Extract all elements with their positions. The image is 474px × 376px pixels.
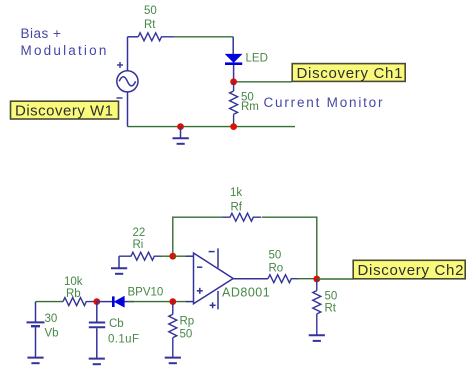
resistor Ro xyxy=(268,275,299,283)
label 50 Ro xyxy=(269,250,284,275)
wire diode to non-inverting junction xyxy=(128,301,187,303)
op-amp plus input symbol xyxy=(197,288,203,294)
svg-text:50: 50 xyxy=(144,5,157,17)
svg-text:30: 30 xyxy=(45,313,58,325)
junction inverting input xyxy=(169,253,176,260)
junction output node xyxy=(313,276,320,283)
wire top from Rt to LED corner xyxy=(174,36,233,38)
label 50 Rt xyxy=(144,5,157,31)
resistor Rt (bottom) xyxy=(313,279,321,335)
resistor Rm xyxy=(230,82,238,127)
junction at LED cathode xyxy=(230,78,237,85)
svg-text:Discovery Ch1: Discovery Ch1 xyxy=(297,65,404,82)
wire junction to op-amp minus xyxy=(173,255,187,257)
wire from LED junction to Discovery Ch1 xyxy=(234,81,292,83)
op-amp U1 AD8001 xyxy=(194,253,234,304)
annotation Bias + Modulation xyxy=(21,26,109,58)
svg-text:Ri: Ri xyxy=(133,239,144,251)
svg-text:Modulation: Modulation xyxy=(21,43,109,58)
plus sign of source xyxy=(117,62,123,68)
svg-text:1k: 1k xyxy=(230,187,242,199)
svg-text:10k: 10k xyxy=(64,276,83,288)
ground at Cb xyxy=(89,359,105,365)
ground (top circuit) xyxy=(173,127,189,144)
svg-text:LED: LED xyxy=(246,53,268,65)
junction ground top rail xyxy=(177,123,184,130)
AC source V1 leads xyxy=(128,37,139,127)
svg-text:Vb: Vb xyxy=(45,328,59,340)
ground at Rt xyxy=(309,335,325,341)
wire junction to Discovery Ch2 xyxy=(317,278,353,280)
svg-text:Current Monitor: Current Monitor xyxy=(264,95,385,110)
svg-text:0.1uF: 0.1uF xyxy=(108,334,139,346)
svg-text:50: 50 xyxy=(269,250,282,262)
wire Ro to output junction xyxy=(297,278,317,280)
ground at Vb xyxy=(27,358,43,364)
junction Rb/Cb/diode xyxy=(93,298,100,305)
op-amp positive supply pin (top) xyxy=(209,248,218,267)
capacitor Cb xyxy=(89,302,105,358)
svg-text:Bias +: Bias + xyxy=(21,26,62,41)
svg-text:Rf: Rf xyxy=(231,202,243,214)
svg-text:Rt: Rt xyxy=(144,19,156,31)
ground at Rp xyxy=(165,358,181,364)
svg-text:50: 50 xyxy=(180,329,193,341)
Discovery W1 tag xyxy=(11,101,119,119)
label 50 Rm xyxy=(241,92,259,114)
svg-text:Rb: Rb xyxy=(66,288,81,300)
op-amp negative supply pin (bottom) xyxy=(210,291,218,310)
resistor Ri xyxy=(119,252,162,260)
Discovery Ch1 tag xyxy=(292,64,405,82)
label 22 Ri xyxy=(133,227,146,251)
svg-text:Ro: Ro xyxy=(269,263,284,275)
resistor Rb xyxy=(63,298,98,306)
svg-text:50: 50 xyxy=(325,291,338,303)
wire Vb to Rb xyxy=(36,301,64,303)
wire Ri to inverting junction xyxy=(160,255,173,257)
svg-text:22: 22 xyxy=(133,227,146,239)
svg-text:Discovery W1: Discovery W1 xyxy=(15,102,114,119)
ground at Ri xyxy=(111,256,127,274)
label Rp 50 xyxy=(180,316,195,341)
junction non-inverting input xyxy=(169,298,176,305)
svg-text:Cb: Cb xyxy=(109,318,124,330)
label 10k Rb xyxy=(64,276,83,300)
AC source V1 (Discovery W1 generator) xyxy=(117,71,138,92)
svg-text:BPV10: BPV10 xyxy=(128,287,164,299)
op-amp minus input lead xyxy=(186,255,194,257)
label 50 Rt (bottom) xyxy=(325,291,338,315)
wire bottom rail of top circuit xyxy=(128,126,296,128)
wire feedback loop (Rf net) xyxy=(173,217,317,279)
svg-text:AD8001: AD8001 xyxy=(222,286,270,300)
label 30 Vb xyxy=(45,313,59,340)
svg-text:Rt: Rt xyxy=(325,303,337,315)
junction Rm bottom xyxy=(230,123,237,130)
svg-text:Rm: Rm xyxy=(241,101,259,113)
photodiode BPV10 xyxy=(97,296,134,307)
resistor Rp xyxy=(169,302,177,357)
resistor Rt (top) xyxy=(138,33,174,41)
minus sign of source xyxy=(117,97,123,99)
LED D1 xyxy=(225,37,242,82)
op-amp plus input lead xyxy=(186,301,194,303)
Discovery Ch2 tag xyxy=(353,260,465,279)
resistor Rf xyxy=(222,213,261,221)
label 1k Rf xyxy=(230,187,243,214)
op-amp output lead xyxy=(233,278,268,280)
svg-text:Discovery Ch2: Discovery Ch2 xyxy=(358,262,465,279)
op-amp minus input symbol xyxy=(197,266,202,268)
label Cb 0.1uF xyxy=(108,318,139,346)
svg-text:Rp: Rp xyxy=(180,316,195,328)
battery Vb xyxy=(27,302,45,357)
